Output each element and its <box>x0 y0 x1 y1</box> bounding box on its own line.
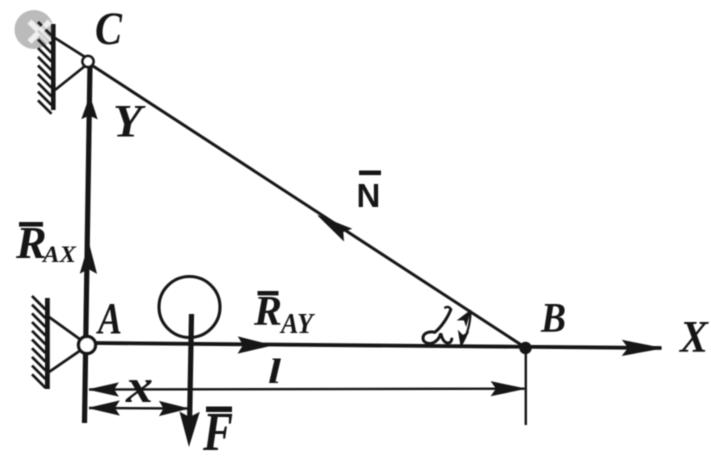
svg-text:C: C <box>95 3 123 55</box>
svg-text:x: x <box>125 360 153 413</box>
svg-text:N: N <box>357 177 381 214</box>
svg-text:F: F <box>202 401 233 451</box>
svg-text:AY: AY <box>279 309 316 340</box>
svg-text:X: X <box>678 312 709 362</box>
svg-text:AX: AX <box>41 242 77 267</box>
svg-text:R: R <box>253 289 282 335</box>
svg-text:A: A <box>96 294 122 343</box>
svg-text:R: R <box>15 217 47 268</box>
svg-text:B: B <box>540 296 566 342</box>
svg-text:l: l <box>268 352 281 391</box>
svg-text:Y: Y <box>113 96 146 148</box>
